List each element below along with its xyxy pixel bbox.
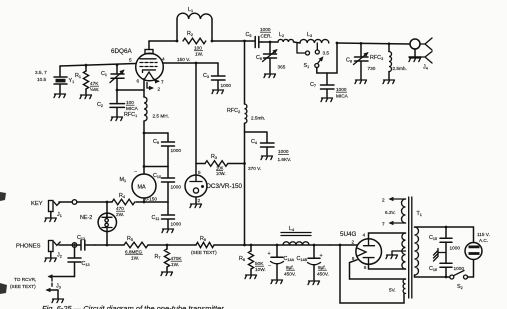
capacitor C12 — [77, 235, 95, 250]
svg-text:R1: R1 — [75, 73, 81, 79]
svg-text:5: 5 — [198, 170, 201, 175]
wire 5U4G pin 6 to HV bottom — [369, 264, 406, 269]
svg-text:R8: R8 — [239, 256, 245, 262]
node C9 branch — [143, 132, 146, 135]
wire plate top cap to tank line — [149, 40, 177, 42]
svg-text:2: 2 — [158, 87, 161, 92]
svg-text:C8: C8 — [346, 58, 352, 64]
jack J3 dashed link — [51, 278, 53, 288]
svg-text:−: − — [134, 169, 137, 175]
svg-text:−: − — [268, 263, 271, 269]
svg-text:1000: 1000 — [454, 266, 465, 271]
wire key line — [77, 198, 168, 202]
choke RFC3 2.5mh — [370, 44, 407, 84]
node C14A junction — [276, 244, 279, 247]
svg-text:C12: C12 — [77, 235, 85, 241]
svg-text:RFC1: RFC1 — [124, 112, 137, 118]
wire 5U4G outer loop to 5V winding bottom — [340, 245, 404, 303]
page edge artifact left middle — [0, 192, 6, 201]
node grid/R1 junction — [85, 64, 88, 67]
capacitor C10 1000 — [153, 167, 181, 203]
svg-text:6: 6 — [364, 265, 367, 270]
resistor R8 50K 10W — [239, 245, 266, 279]
tube V2 OC3/VR-150 — [185, 164, 243, 208]
svg-text:10K: 10K — [216, 166, 224, 171]
connector J4 to antenna — [409, 38, 432, 71]
svg-text:100: 100 — [194, 46, 202, 51]
node grid/C1 junction — [116, 63, 119, 66]
wire C5 to L2 — [262, 41, 278, 43]
svg-text:1000: 1000 — [171, 185, 182, 190]
node L1 right — [211, 40, 214, 43]
AC plug 115V A.C. — [465, 232, 490, 260]
svg-text:+: + — [268, 251, 271, 257]
svg-text:1W.: 1W. — [171, 262, 179, 267]
capacitor C6 (variable) 365 — [256, 42, 286, 78]
svg-text:RFC3: RFC3 — [370, 55, 383, 61]
node C14B junction — [313, 244, 316, 247]
svg-text:7: 7 — [161, 80, 164, 85]
svg-text:C6: C6 — [256, 55, 262, 61]
svg-text:6: 6 — [137, 79, 140, 84]
wire C9 bottom branch — [144, 166, 168, 168]
svg-text:MA: MA — [138, 185, 146, 191]
svg-text:NE-2: NE-2 — [80, 215, 92, 221]
svg-text:C2: C2 — [97, 102, 103, 108]
wire 370V rail — [244, 41, 246, 245]
svg-text:Y1: Y1 — [69, 78, 75, 84]
svg-text:C16: C16 — [429, 266, 437, 272]
svg-text:RFC2: RFC2 — [227, 108, 240, 114]
svg-text:C14A: C14A — [284, 256, 295, 262]
wire S2 to plug — [468, 260, 474, 278]
capacitor C14B 8uf 450V — [297, 245, 329, 285]
svg-text:C10: C10 — [153, 173, 161, 179]
svg-text:1000: 1000 — [221, 83, 232, 88]
resistor R7 470K 1W — [155, 245, 183, 276]
svg-text:1W.: 1W. — [195, 52, 203, 57]
svg-text:J2: J2 — [57, 253, 62, 259]
svg-text:MICA: MICA — [126, 106, 139, 111]
node L3 right — [336, 42, 339, 45]
svg-text:2: 2 — [352, 240, 355, 245]
wire 5U4G pin 8 to 5V top — [350, 260, 406, 279]
svg-text:100: 100 — [126, 100, 134, 105]
svg-text:(SEE TEXT): (SEE TEXT) — [10, 284, 36, 289]
node C16 bottom — [445, 276, 448, 279]
svg-text:2.5mh.: 2.5mh. — [393, 66, 407, 71]
wire S1 pole to L3 right — [317, 43, 337, 73]
wire L3 mid tap to S1 contact — [316, 43, 318, 50]
svg-text:T1: T1 — [417, 211, 422, 217]
wire output line L3 to J4 — [337, 43, 410, 44]
svg-text:J3: J3 — [56, 284, 61, 290]
inductor L4 (filter choke) — [281, 226, 311, 245]
capacitor C8 (variable) 730 — [346, 43, 376, 83]
svg-text:(SEE TEXT): (SEE TEXT) — [191, 250, 217, 255]
tube V1 6DQ6A — [111, 41, 165, 84]
capacitor C9 1000 — [153, 133, 181, 167]
svg-text:A.C.: A.C. — [479, 238, 488, 243]
svg-text:C1: C1 — [101, 71, 107, 77]
svg-text:4: 4 — [363, 233, 366, 238]
node C15 top — [445, 226, 448, 229]
svg-text:6.8MEG: 6.8MEG — [125, 250, 143, 255]
svg-text:PHONES: PHONES — [16, 244, 41, 250]
svg-text:R7: R7 — [155, 254, 161, 260]
svg-text:R4: R4 — [119, 193, 125, 199]
svg-text:1000: 1000 — [278, 149, 289, 154]
svg-text:3.5, 7: 3.5, 7 — [35, 70, 47, 75]
capacitor C2 100 MICA — [97, 90, 139, 121]
wire primary top to AC plug — [415, 227, 474, 243]
node screen/regulator junction — [195, 62, 198, 65]
svg-text:6.3V.: 6.3V. — [385, 210, 396, 215]
svg-text:C13: C13 — [82, 261, 90, 267]
meter M1 0-150 MA — [120, 169, 158, 202]
wire phones line — [95, 244, 330, 246]
node 5U4G filament/B+ junction — [339, 244, 342, 247]
svg-text:115 V.: 115 V. — [477, 232, 490, 237]
svg-text:C7: C7 — [310, 82, 316, 88]
jack J1 KEY — [31, 200, 77, 222]
svg-text:10W.: 10W. — [216, 171, 226, 176]
capacitor C15 1000 — [429, 227, 460, 263]
transformer 5V winding — [389, 279, 406, 293]
wire 5U4G pin 4 to HV top — [369, 233, 406, 239]
svg-text:TO RCVR,: TO RCVR, — [14, 277, 36, 282]
inductor L1 — [177, 7, 212, 41]
svg-text:CER.: CER. — [261, 34, 272, 39]
transformer primary winding — [415, 227, 419, 275]
svg-text:J1: J1 — [57, 212, 62, 218]
node C6 junction — [269, 41, 272, 44]
svg-text:1W.: 1W. — [131, 256, 139, 261]
resistor R1 47K 1/2W — [75, 65, 99, 98]
wire tank line to C5 — [212, 40, 255, 42]
wire grid line from crystal to tube pin 5 — [60, 64, 136, 67]
svg-text:J4: J4 — [423, 65, 428, 71]
tube V1 heater pins 7 and 2 — [147, 79, 164, 92]
svg-text:450V.: 450V. — [284, 272, 296, 277]
svg-text:C4: C4 — [251, 139, 257, 145]
svg-text:50K: 50K — [255, 261, 264, 266]
svg-text:0-150: 0-150 — [145, 197, 157, 202]
resistor R2 100 1W — [183, 31, 206, 57]
svg-text:S1: S1 — [304, 63, 310, 69]
capacitor C16 1000 — [429, 263, 464, 277]
wire RFC1 to meter — [143, 121, 145, 174]
node 370V rail to bottom line — [243, 244, 246, 247]
svg-text:370 V.: 370 V. — [248, 166, 261, 171]
svg-text:C5: C5 — [246, 32, 252, 38]
svg-text:R6: R6 — [200, 236, 206, 242]
chassis ground C15/C16 junction — [434, 249, 447, 262]
svg-text:5: 5 — [129, 58, 132, 63]
svg-text:2: 2 — [198, 198, 201, 203]
svg-text:47K: 47K — [90, 81, 99, 86]
wire screen pin 4 to C3 — [163, 62, 218, 64]
resistor R3 10K 10W — [196, 154, 245, 176]
svg-text:1000: 1000 — [450, 246, 461, 251]
switch S1 — [304, 50, 330, 69]
jack J2 PHONES — [16, 241, 77, 262]
svg-text:10W.: 10W. — [255, 267, 266, 272]
svg-text:R3: R3 — [211, 154, 217, 160]
svg-text:8μf.: 8μf. — [286, 265, 294, 270]
node R3/370V rail — [243, 162, 246, 165]
svg-text:R2: R2 — [187, 31, 193, 37]
svg-text:150 V.: 150 V. — [177, 57, 190, 62]
svg-text:2.5 MH.: 2.5 MH. — [153, 114, 169, 119]
svg-text:1.6KV.: 1.6KV. — [278, 157, 292, 162]
wire to receiver (jack J3 tip contact) — [49, 276, 75, 278]
node R7 junction — [166, 244, 169, 247]
capacitor C5 1000 CER — [246, 27, 272, 48]
svg-text:5U4G: 5U4G — [340, 231, 357, 238]
svg-text:450V.: 450V. — [317, 272, 329, 277]
capacitor C1 (variable) — [101, 65, 124, 90]
inductor L2 — [278, 32, 294, 42]
wire B+ to 5U4G pin 2 — [330, 244, 357, 246]
choke RFC1 2.5 MH — [124, 97, 169, 121]
svg-text:1000: 1000 — [336, 87, 347, 92]
svg-text:C15: C15 — [429, 235, 437, 241]
resistor R4 470 2W — [112, 193, 135, 217]
node R8 junction — [250, 244, 253, 247]
svg-text:L1: L1 — [188, 7, 193, 13]
HV center tap ground — [386, 251, 406, 259]
svg-text:8μf.: 8μf. — [318, 265, 326, 270]
node NE-2 bottom — [106, 244, 109, 247]
svg-text:470: 470 — [116, 206, 124, 211]
node meter bottom — [143, 201, 146, 204]
choke RFC2 2.5mh — [227, 104, 265, 123]
svg-text:4: 4 — [162, 57, 165, 62]
svg-text:L2: L2 — [279, 32, 284, 38]
wire L3 left tap to S1 contact — [297, 43, 305, 53]
svg-text:5V.: 5V. — [389, 288, 396, 293]
svg-text:KEY: KEY — [31, 201, 43, 207]
node RFC3 junction — [388, 42, 391, 45]
jack J3 second contact with arrow — [47, 289, 58, 291]
svg-text:C9: C9 — [153, 139, 159, 145]
svg-text:1000: 1000 — [171, 222, 182, 227]
svg-text:C3: C3 — [203, 73, 209, 79]
wire cathode junction to C1/C2 junction — [117, 89, 144, 91]
svg-text:7: 7 — [382, 222, 385, 227]
svg-text:Fig. 6-25 — Circuit diagram of: Fig. 6-25 — Circuit diagram of the one-t… — [42, 304, 226, 309]
svg-text:MICA: MICA — [336, 94, 349, 99]
transformer T1 core — [409, 197, 422, 298]
svg-text:3.5: 3.5 — [323, 51, 330, 56]
transformer HV winding — [402, 233, 406, 269]
svg-text:2: 2 — [382, 198, 385, 203]
svg-text:OC3/VR-150: OC3/VR-150 — [206, 183, 243, 190]
svg-text:1000: 1000 — [171, 148, 182, 153]
wire cathode pin 6 to junction — [143, 79, 145, 97]
capacitor C14A 8uf 450V — [268, 245, 296, 284]
wire C9 top branch — [144, 132, 168, 134]
capacitor C4 1000 1.6KV — [245, 132, 292, 162]
ground J3 — [57, 290, 59, 298]
neon bulb NE-2 — [80, 202, 117, 245]
node NE-2 top — [106, 201, 109, 204]
svg-text:C14B: C14B — [297, 256, 308, 262]
crystal Y1 — [35, 66, 74, 98]
capacitor C11 1000 — [152, 202, 182, 233]
node C8 junction — [360, 42, 363, 45]
switch S2 — [450, 271, 468, 291]
svg-text:6DQ6A: 6DQ6A — [111, 48, 132, 55]
resistor R5 6.8MEG 1W — [124, 236, 148, 261]
transformer 6.3V winding — [382, 198, 406, 227]
wire L2 to L3 — [294, 42, 300, 43]
wire 150V to OC3 and R3 — [195, 63, 197, 164]
tube V3 5U4G — [340, 231, 382, 270]
svg-text:L4: L4 — [289, 226, 294, 232]
node L1 left — [176, 40, 179, 43]
svg-text:730: 730 — [368, 66, 376, 71]
svg-text:470K: 470K — [171, 256, 183, 261]
svg-text:L3: L3 — [307, 32, 312, 38]
node tank/RFC2 junction — [243, 40, 246, 43]
svg-text:M1: M1 — [120, 177, 127, 183]
capacitor C13 — [68, 244, 90, 277]
capacitor C7 1000 MICA — [310, 73, 349, 102]
svg-text:1000: 1000 — [260, 27, 271, 32]
wire primary bottom to S2 — [415, 275, 450, 277]
svg-text:2.5mh.: 2.5mh. — [251, 116, 265, 121]
svg-text:+: + — [320, 253, 323, 259]
page edge artifact left bottom — [0, 283, 7, 294]
svg-text:2W.: 2W. — [116, 212, 124, 217]
inductor L3 — [300, 32, 329, 43]
capacitor C3 1000 — [203, 63, 231, 94]
svg-text:½W.: ½W. — [90, 86, 99, 92]
svg-text:C11: C11 — [152, 215, 160, 221]
svg-text:365: 365 — [278, 65, 286, 70]
svg-text:R5: R5 — [127, 236, 133, 242]
svg-text:S2: S2 — [457, 284, 463, 290]
resistor R6 (SEE TEXT) — [191, 236, 217, 255]
svg-text:10.5: 10.5 — [37, 77, 47, 82]
